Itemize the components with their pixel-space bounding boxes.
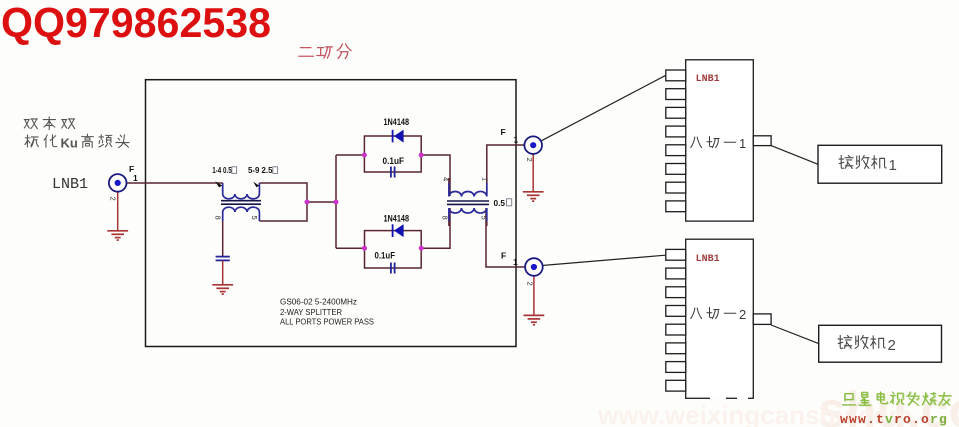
svg-text:2: 2: [108, 197, 117, 201]
svg-text:5: 5: [250, 216, 259, 220]
svg-text:1: 1: [133, 173, 138, 183]
svg-text:0.1uF: 0.1uF: [375, 251, 396, 261]
svg-text:1N4148: 1N4148: [384, 117, 410, 127]
svg-text:5-9 2.5: 5-9 2.5: [248, 166, 273, 175]
svg-text:0.5: 0.5: [494, 199, 506, 208]
svg-text:1: 1: [513, 257, 518, 267]
svg-text:GS06-02 5-2400MHz: GS06-02 5-2400MHz: [280, 297, 357, 307]
svg-text:0.1uF: 0.1uF: [383, 156, 405, 166]
svg-text:2: 2: [739, 307, 746, 322]
svg-text:1-4 0.5: 1-4 0.5: [212, 166, 232, 175]
svg-text:1: 1: [514, 135, 519, 145]
svg-text:F: F: [501, 251, 506, 261]
svg-text:5: 5: [479, 216, 488, 220]
svg-text:Ku: Ku: [61, 136, 78, 151]
svg-text:1: 1: [889, 157, 897, 174]
svg-text:LNB1: LNB1: [696, 74, 720, 85]
svg-text:QQ979862538: QQ979862538: [1, 0, 271, 46]
svg-text:LNB1: LNB1: [52, 176, 88, 193]
svg-text:2: 2: [888, 337, 896, 354]
svg-text:8: 8: [440, 216, 449, 220]
svg-text:4: 4: [441, 177, 450, 181]
svg-text:F: F: [501, 127, 506, 137]
svg-text:www.tvro.org: www.tvro.org: [840, 412, 948, 427]
svg-text:ALL PORTS POWER PASS: ALL PORTS POWER PASS: [280, 316, 374, 326]
svg-text:1: 1: [480, 177, 489, 181]
svg-text:1: 1: [739, 136, 746, 151]
svg-text:8: 8: [213, 216, 222, 220]
svg-text:1N4148: 1N4148: [384, 213, 410, 223]
svg-text:LNB1: LNB1: [696, 254, 720, 265]
